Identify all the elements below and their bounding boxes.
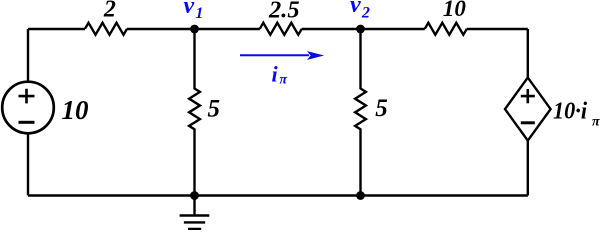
resistor 5 (right, at v2) (355, 29, 366, 196)
resistor 2.5 (260, 23, 302, 35)
svg-text:iπ: iπ (272, 61, 288, 87)
dependent source plus sign (521, 89, 535, 103)
bottom wire (28, 194, 528, 196)
svg-text:v1: v1 (184, 0, 204, 22)
node v2 junction dot (356, 25, 365, 34)
top wire (28, 28, 528, 30)
resistor 10 (top right) (425, 23, 467, 35)
value label 10 (top right) (443, 0, 467, 21)
voltage source plus sign (19, 89, 35, 104)
node v1 junction dot (190, 25, 199, 34)
bottom junction dot (under v1) (190, 191, 199, 200)
svg-text:2.5: 2.5 (268, 0, 300, 24)
value label 5 (left) (208, 96, 221, 123)
current label i_pi (272, 61, 288, 87)
node v2 label (350, 0, 370, 22)
value label 5 (right) (375, 95, 388, 122)
voltage source minus sign (19, 121, 35, 124)
ground (180, 196, 210, 230)
svg-text:10·i: 10·i (553, 98, 587, 125)
voltage source V1 circle (2, 82, 54, 134)
node v1 label (184, 0, 204, 22)
dependent source diamond (505, 78, 551, 141)
left wire (27, 29, 29, 196)
resistor 5 (left, at v1) (189, 29, 200, 196)
svg-text:2: 2 (103, 0, 116, 22)
current arrow i_pi (240, 51, 324, 60)
resistor 2 (85, 23, 127, 35)
svg-text:5: 5 (375, 95, 388, 122)
svg-text:π: π (592, 114, 600, 129)
value label 2.5 (268, 0, 300, 24)
value label 2 (103, 0, 116, 22)
right wire (527, 29, 529, 196)
svg-text:10: 10 (443, 0, 467, 21)
value label 10·i_pi (553, 98, 600, 130)
bottom junction dot (under v2) (356, 191, 365, 200)
svg-text:10: 10 (62, 95, 90, 125)
svg-text:v2: v2 (350, 0, 370, 22)
dependent source minus sign (521, 121, 535, 124)
value label 10 (source) (62, 95, 90, 125)
svg-text:5: 5 (208, 96, 221, 123)
